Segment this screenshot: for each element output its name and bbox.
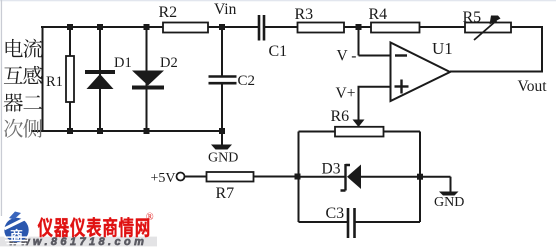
svg-text:GND: GND xyxy=(434,195,464,210)
op-amp U1 xyxy=(391,39,453,101)
junction R1 top xyxy=(67,24,73,30)
svg-text:+5V: +5V xyxy=(151,171,176,186)
junction D1 bottom xyxy=(97,128,103,134)
page top edge tint xyxy=(0,0,556,1)
resistor R4 xyxy=(369,6,420,33)
svg-text:D1: D1 xyxy=(114,55,132,71)
watermark logo xyxy=(4,212,29,245)
svg-text:D2: D2 xyxy=(160,55,178,71)
wire D2 branch xyxy=(146,27,148,131)
junction R3/R4 (V- node) xyxy=(356,24,362,30)
power +5V terminal xyxy=(151,171,185,186)
resistor R6 (pot) xyxy=(331,108,384,137)
capacitor C1 xyxy=(259,15,287,60)
svg-text:U1: U1 xyxy=(432,39,453,58)
svg-text:Vin: Vin xyxy=(214,1,237,18)
wire V+ drop to R6 wiper xyxy=(358,87,360,120)
watermark url bar xyxy=(0,237,157,247)
svg-text:R1: R1 xyxy=(46,74,63,90)
wire C2 lower xyxy=(221,85,223,132)
wire block left rail xyxy=(298,132,300,223)
diode D1 xyxy=(85,55,132,89)
wire D1 branch xyxy=(99,27,101,131)
wire R1 branch xyxy=(69,27,71,131)
junction node Vin xyxy=(219,24,225,30)
resistor R7 xyxy=(207,172,254,202)
svg-text:C1: C1 xyxy=(269,43,288,60)
junction D2 bottom xyxy=(144,128,150,134)
wire inverting branch xyxy=(358,27,360,56)
svg-text:V -: V - xyxy=(337,48,357,65)
svg-text:D3: D3 xyxy=(322,161,341,178)
svg-text:Vout: Vout xyxy=(518,78,548,95)
wire top rail left xyxy=(41,26,258,28)
wire C3 row left xyxy=(299,221,348,223)
svg-text:®: ® xyxy=(146,212,154,223)
wire V+ to op-amp xyxy=(358,86,391,88)
wire D3 row xyxy=(299,176,345,178)
diode D2 xyxy=(132,55,178,90)
wire GND2 stem xyxy=(450,177,452,192)
wire bottom rail xyxy=(31,130,223,132)
resistor R3 xyxy=(295,6,345,33)
wire left vertical xyxy=(42,27,44,132)
junction R7 to left rail xyxy=(295,174,301,180)
label transformer secondary (Chinese) xyxy=(4,39,43,138)
junction R1 bottom xyxy=(67,128,73,134)
junction D3 to right rail xyxy=(417,174,423,180)
page left edge tint xyxy=(1,0,2,216)
svg-text:R2: R2 xyxy=(159,4,178,21)
svg-text:R3: R3 xyxy=(295,6,314,23)
wire block right rail xyxy=(419,132,421,223)
svg-text:GND: GND xyxy=(208,151,238,166)
svg-text:C3: C3 xyxy=(326,205,345,222)
wire +5V to R7 xyxy=(185,176,299,178)
wire Vin/C2 upper xyxy=(221,27,223,76)
resistor R5 (trimmer) xyxy=(463,9,512,40)
wire C3 row right xyxy=(356,221,421,223)
wire top rail right xyxy=(265,26,544,28)
svg-text:R4: R4 xyxy=(369,6,388,23)
junction C2 bottom / GND xyxy=(219,128,225,134)
svg-text:R7: R7 xyxy=(216,185,235,202)
wire feedback vertical xyxy=(541,27,543,72)
svg-text:R6: R6 xyxy=(331,108,350,125)
svg-text:www.861718.com: www.861718.com xyxy=(9,236,147,247)
svg-text:C2: C2 xyxy=(238,73,256,89)
junction D1 top xyxy=(97,24,103,30)
wire block top xyxy=(299,131,421,133)
svg-text:V+: V+ xyxy=(336,85,356,102)
ground GND1 xyxy=(208,145,238,166)
resistor R2 xyxy=(159,4,209,33)
resistor R1 xyxy=(46,56,74,102)
wire V- to op-amp xyxy=(359,55,391,57)
wire GND1 stem xyxy=(221,131,223,145)
watermark site name xyxy=(38,217,149,237)
wire D3 to right rail xyxy=(361,176,451,178)
junction D2 top xyxy=(144,24,150,30)
capacitor C3 xyxy=(326,205,355,238)
svg-text:R5: R5 xyxy=(463,9,482,26)
wire op-amp output xyxy=(450,71,543,73)
ground GND2 xyxy=(434,192,464,211)
diode D3 (zener) xyxy=(322,161,362,191)
capacitor C2 xyxy=(209,73,256,89)
